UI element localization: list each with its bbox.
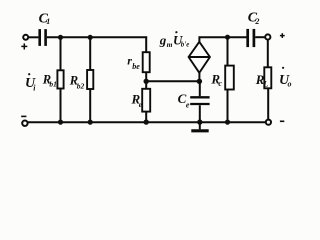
capacitor C1 [40,29,46,46]
label C1 [39,11,51,26]
ground bar [191,129,208,132]
node dot bottom R_b2 [88,120,93,125]
label U_i (input voltage) [25,73,36,92]
node dot bottom R_e [144,119,149,124]
svg-text:b1: b1 [49,79,57,88]
node dot bottom R_b1 [58,120,63,125]
collector rail [199,36,247,38]
svg-text:b'e: b'e [181,40,190,48]
wire R_b2 top [89,37,91,70]
resistor R_L [264,67,271,88]
wire C_e bottom [199,105,201,129]
capacitor C2 [248,29,254,47]
wire r_be to node E [145,72,147,89]
svg-text:o: o [288,80,292,89]
node dot E right [197,79,202,84]
wire R_b1 top [60,37,62,70]
input terminal - (bottom-left) [22,121,27,126]
wire R_c bottom [227,90,229,123]
svg-text:2: 2 [254,17,259,26]
wire output terminal down to R_L [267,40,269,68]
svg-text:e: e [186,101,190,110]
svg-text:be: be [132,62,140,71]
controlled source g_m U_b'e diamond [189,42,210,73]
node dot top R_b2 [88,35,93,40]
label U_o (output voltage) [279,67,292,89]
node dot bottom R_c [225,120,230,125]
node dot top R_c [225,35,230,40]
node dot top R_b1 [58,35,63,40]
svg-text:1: 1 [46,17,50,26]
capacitor C_e [190,97,209,104]
wire diamond bottom stub [198,73,200,83]
resistor R_b2 [87,70,93,89]
plus sign output [280,33,285,38]
svg-text:b2: b2 [77,81,85,90]
label C_e [178,91,190,109]
emitter horizontal wire [146,80,199,82]
label R_L [255,72,269,88]
output terminal - (bottom-right) [266,120,271,125]
wire R_c top [227,37,229,65]
output terminal + (top-right) [265,34,270,39]
svg-text:g: g [159,32,167,47]
svg-text:L: L [262,79,268,88]
minus sign input [21,115,26,117]
wire diamond top stub [198,36,200,41]
label R_b2 [69,73,85,90]
wire R_L to bottom terminal [267,88,269,119]
svg-text:c: c [218,79,222,88]
plus sign input [21,43,27,49]
wire E node down to C_e [199,81,201,96]
label C2 [248,11,260,27]
resistor R_e [142,89,150,112]
wire top rail B [47,36,147,38]
resistor R_c [225,66,234,90]
node dot bottom C_e [197,119,202,124]
input terminal + (top-left) [23,35,28,40]
wire R_b2 bottom [89,89,91,122]
label r_be [127,53,140,71]
label R_e [131,91,143,109]
svg-text:m: m [167,40,173,49]
wire R_b1 bottom [60,89,62,123]
wire terminal to C1 [29,36,39,38]
label R_b1 [42,72,57,88]
resistor R_b1 [57,70,63,88]
label g_m U_b'e [159,31,190,49]
wire R_e bottom [145,112,147,122]
minus sign output [280,120,284,122]
svg-text:i: i [33,83,36,92]
wire corner into r_be [145,36,147,52]
wire C2 to output terminal [255,36,265,38]
resistor r_be [143,52,150,72]
node dot E left [144,79,149,84]
bottom ground rail [28,121,266,123]
label R_c [210,72,222,89]
